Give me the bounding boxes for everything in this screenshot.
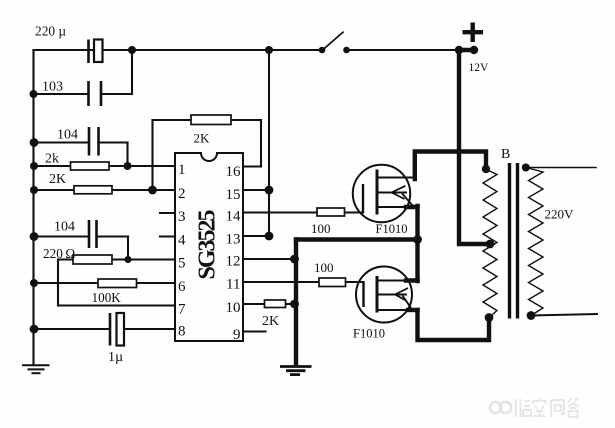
svg-text:13: 13: [226, 232, 241, 248]
svg-text:9: 9: [233, 327, 241, 343]
svg-text:100: 100: [311, 221, 331, 236]
svg-text:100K: 100K: [92, 290, 122, 305]
svg-text:10: 10: [226, 300, 241, 316]
svg-text:7: 7: [178, 302, 186, 318]
svg-text:2K: 2K: [49, 172, 66, 187]
svg-text:8: 8: [178, 324, 186, 340]
svg-text:100: 100: [314, 260, 334, 275]
svg-text:2K: 2K: [262, 314, 279, 329]
svg-text:14: 14: [226, 209, 242, 225]
svg-text:2K: 2K: [194, 131, 211, 146]
svg-text:2k: 2k: [45, 152, 59, 167]
svg-text:11: 11: [226, 277, 240, 293]
svg-text:16: 16: [226, 164, 242, 180]
svg-text:15: 15: [226, 187, 241, 203]
svg-text:F1010: F1010: [353, 327, 385, 341]
svg-text:1µ: 1µ: [108, 350, 123, 365]
svg-text:1: 1: [178, 162, 186, 178]
svg-text:6: 6: [178, 279, 186, 295]
svg-text:SG3525: SG3525: [195, 209, 221, 279]
svg-text:2: 2: [178, 186, 186, 202]
svg-text:F1010: F1010: [376, 222, 408, 236]
svg-text:B: B: [501, 147, 510, 162]
svg-text:220V: 220V: [545, 207, 575, 222]
svg-text:4: 4: [178, 233, 186, 249]
svg-text:104: 104: [54, 219, 75, 234]
svg-text:3: 3: [178, 209, 186, 225]
svg-text:5: 5: [178, 256, 186, 272]
svg-text:220 µ: 220 µ: [35, 24, 66, 39]
svg-text:220 Ω: 220 Ω: [43, 246, 75, 261]
svg-text:104: 104: [57, 128, 78, 143]
svg-text:12: 12: [226, 254, 241, 270]
svg-text:103: 103: [42, 80, 63, 95]
svg-text:12V: 12V: [469, 62, 490, 74]
